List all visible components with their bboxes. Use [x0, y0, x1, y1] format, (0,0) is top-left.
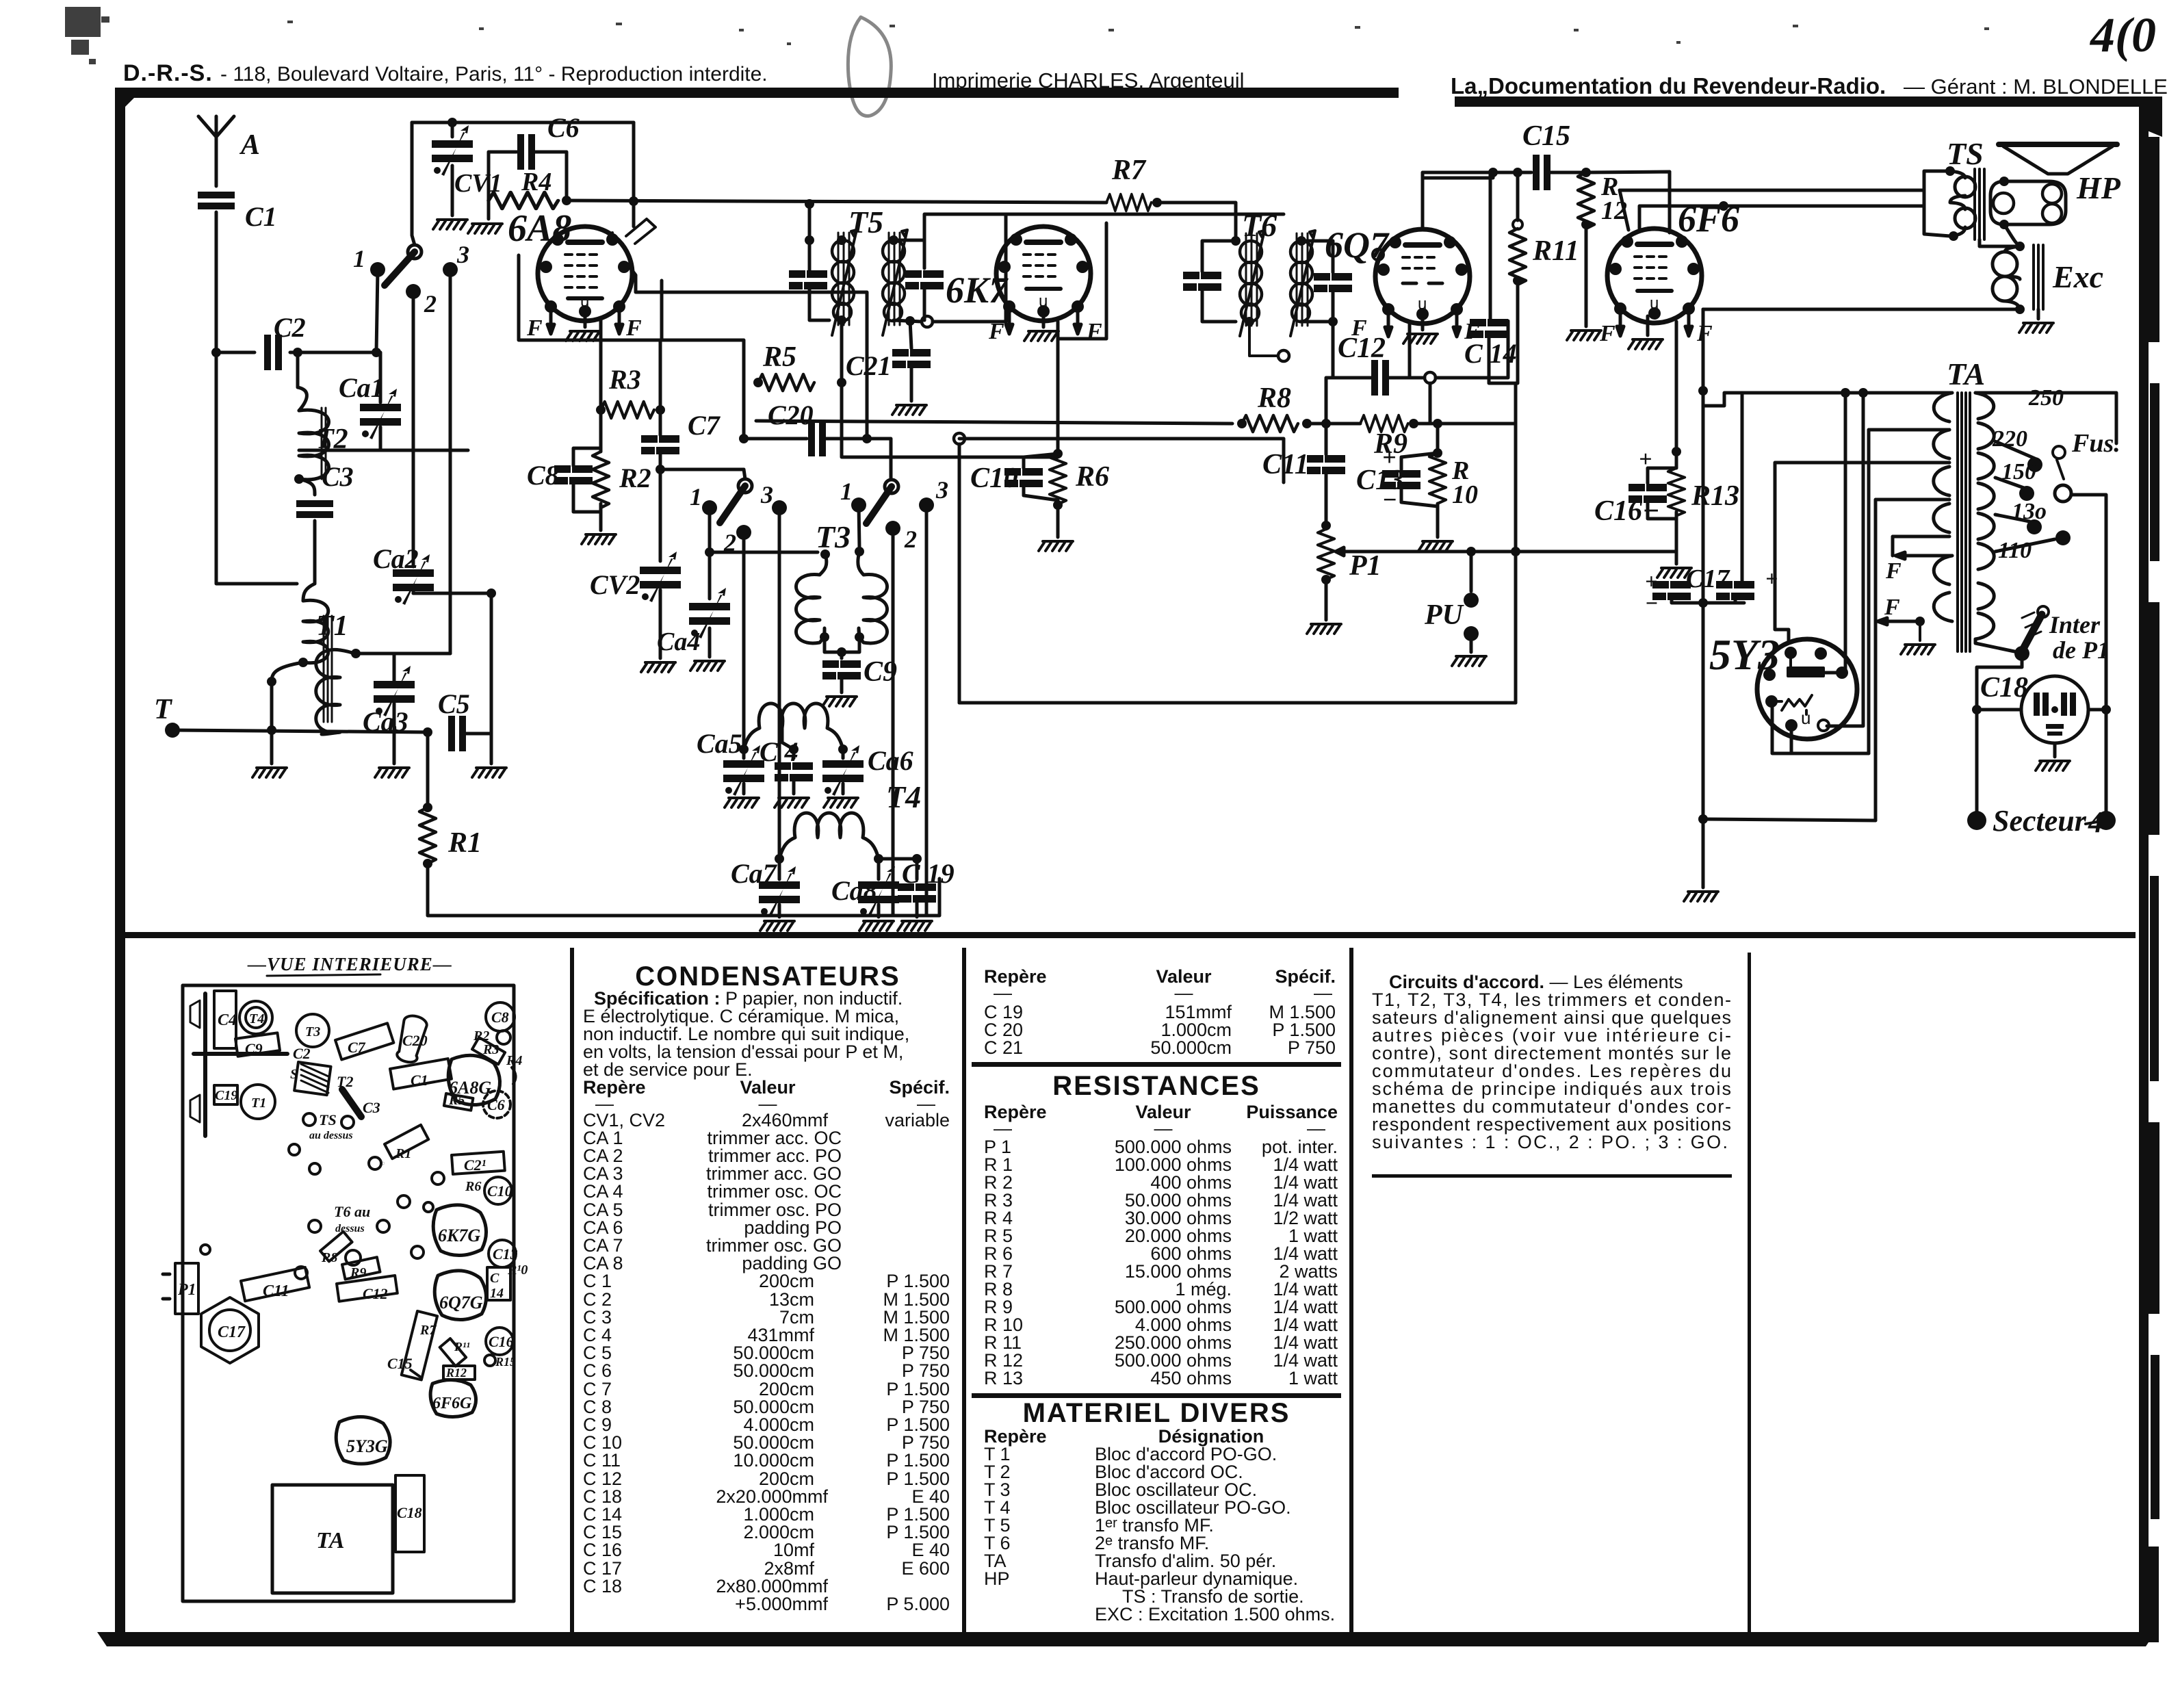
wire 6A8 pin drops — [601, 318, 660, 410]
part T2 hatch — [301, 1064, 328, 1093]
svg-text:1: 1 — [353, 245, 365, 272]
switch S1 lever — [385, 252, 415, 285]
part C17 — [201, 1297, 259, 1363]
ground under C9 — [822, 697, 857, 706]
svg-text:R4: R4 — [506, 1053, 522, 1068]
6A8 cathode ground — [584, 316, 587, 327]
wire left drop to pivot — [412, 122, 415, 245]
trimmer Ca2 — [393, 554, 434, 605]
svg-text:150: 150 — [2001, 459, 2036, 484]
svg-text:- 118, Boulevard Voltaire, Par: - 118, Boulevard Voltaire, Paris, 11° - … — [220, 63, 768, 86]
svg-text:C6: C6 — [547, 112, 580, 143]
node R8 right — [1302, 419, 1312, 428]
svg-text:50.000cm: 50.000cm — [1150, 1037, 1232, 1058]
capacitor C21 — [892, 349, 931, 368]
wire C7 node to pivot2 — [660, 468, 744, 471]
node bus x1402 — [954, 433, 965, 444]
svg-text:C10: C10 — [970, 463, 1018, 494]
wire C14 down — [1489, 337, 1516, 383]
node C7 bottom — [656, 465, 665, 474]
wire y807 to T3 — [710, 551, 818, 554]
svg-text:−: − — [1382, 486, 1397, 513]
wire C9 ground — [840, 679, 844, 693]
svg-text:C2: C2 — [293, 1045, 311, 1062]
wire T6 sec to 6Q7 grid — [1332, 322, 1335, 378]
resistor R5 — [758, 374, 814, 391]
wire 5Y3 bottom box — [1772, 701, 1869, 753]
node T5 sec top — [889, 235, 898, 245]
wire C20 right to S3 — [826, 439, 891, 479]
wire bus B+ y295 — [567, 200, 1106, 203]
node R10 top — [1433, 419, 1442, 428]
trimmer CV2 — [640, 552, 681, 602]
wire C8 R2 bracket — [573, 448, 601, 530]
TS secondary HP coil box — [1990, 181, 2066, 224]
coil T1 — [303, 600, 328, 663]
6F6 filament right — [1685, 313, 1692, 336]
wire T5 sec top right — [894, 240, 924, 268]
node T3 left top — [820, 549, 830, 559]
TA primary winding — [1934, 393, 1952, 621]
svg-text:13o: 13o — [2012, 499, 2047, 524]
tube 6K7 innards — [1000, 235, 1087, 316]
capacitor C12 — [1371, 360, 1389, 396]
wire T5 sec cap bottom — [923, 288, 926, 320]
wire 5Y3 plate feed 1 — [1825, 393, 1845, 673]
svg-text:PU: PU — [1424, 599, 1465, 631]
tube C18 condenser — [2021, 676, 2088, 743]
wire T5 cap branch — [809, 240, 829, 320]
svg-text:u: u — [580, 292, 589, 311]
svg-text:R6: R6 — [465, 1179, 481, 1194]
ground under R2 — [582, 534, 616, 544]
wire PU drop — [1470, 552, 1473, 591]
bottom border bar — [97, 1632, 2155, 1646]
svg-text:C16−: C16− — [1594, 495, 1659, 527]
svg-text:C18: C18 — [397, 1504, 422, 1521]
node sw1 wire — [372, 348, 381, 357]
wire C6 R4 frame — [489, 152, 567, 219]
mini table rows — [984, 1002, 1336, 1058]
top right corner diagonal — [2139, 107, 2162, 137]
svg-text:C7: C7 — [688, 410, 721, 441]
part T6 marker — [309, 1220, 321, 1232]
svg-text:50.000cm: 50.000cm — [733, 1360, 814, 1381]
svg-text:C 6: C 6 — [583, 1360, 612, 1381]
svg-text:T3: T3 — [816, 519, 851, 554]
coil T6 secondary — [1290, 231, 1315, 336]
wire T2 to C3 — [299, 479, 315, 495]
svg-text:P 5.000: P 5.000 — [886, 1594, 950, 1614]
tube 6Q7 — [1375, 229, 1470, 324]
P1 wiper arrow — [1336, 547, 1345, 556]
node TS sec bottom — [1999, 220, 2009, 229]
part C10 — [484, 1177, 512, 1204]
node C18 right — [2101, 705, 2111, 714]
svg-text:R7: R7 — [419, 1323, 437, 1338]
node 110 — [2055, 530, 2071, 545]
capacitor C6 — [517, 134, 535, 170]
capacitor C20 — [808, 421, 826, 456]
wire T1 bottom to T bus — [272, 662, 303, 730]
wire contact1 down — [376, 270, 380, 402]
wire C15 bus y252 — [1493, 172, 1670, 233]
svg-text:R12: R12 — [445, 1366, 467, 1380]
wire R12 ground — [1585, 224, 1588, 326]
tap 220 — [1995, 441, 2035, 458]
wire C5 right — [466, 732, 491, 736]
wire TS sec to Exc — [1980, 224, 2020, 246]
svg-text:2: 2 — [424, 290, 437, 318]
wire 6K7 box — [1006, 214, 1106, 454]
part T1 — [241, 1085, 275, 1119]
node C2 junction — [211, 348, 221, 357]
node Exc bottom — [2015, 305, 2025, 314]
wire y515 — [216, 351, 376, 354]
part R8 — [320, 1232, 352, 1262]
part C18 — [395, 1475, 424, 1552]
circuits d'accord paragraph — [1372, 972, 1731, 1152]
coil T3 right — [858, 552, 887, 643]
6K7 filament right — [1074, 311, 1081, 334]
capacitor C9 — [822, 660, 861, 680]
part 6K7G — [433, 1205, 486, 1256]
top border bar left — [115, 88, 1399, 107]
trimmer Ca1 — [360, 389, 401, 439]
wire R3 left down — [599, 410, 603, 448]
5Y3 innards — [1765, 648, 1847, 731]
resistor R7 — [1106, 194, 1152, 211]
node Ca5 top — [739, 745, 749, 754]
ground under C19 — [916, 902, 919, 917]
node y955 — [351, 649, 361, 658]
wire C13 R10 bracket — [1401, 424, 1438, 537]
svg-text:C3: C3 — [363, 1099, 380, 1116]
wire C18 right — [2088, 708, 2106, 712]
wire wiper bus y806 — [1345, 550, 1676, 554]
svg-text:C12: C12 — [363, 1285, 388, 1302]
part C7 — [335, 1023, 393, 1059]
terminal PU 2 — [1464, 626, 1479, 641]
resistor R4 — [489, 192, 558, 209]
scan noise top edge — [65, 7, 1989, 64]
svg-text:+: + — [1645, 569, 1657, 593]
svg-text:au dessus: au dessus — [309, 1130, 353, 1141]
svg-text:Fus.: Fus. — [2071, 429, 2120, 458]
svg-text:—VUE INTERIEURE—: —VUE INTERIEURE— — [247, 954, 452, 974]
switch S2 contact 2 — [736, 525, 751, 540]
wire Ca2 bottom — [412, 591, 415, 593]
wire R7 to T6 — [1157, 203, 1236, 241]
node R8 left — [1237, 419, 1247, 428]
speaker rail — [194, 994, 287, 1136]
wire x1402 down — [958, 444, 961, 703]
capacitor T5 primary — [789, 270, 827, 289]
coil T5 secondary — [883, 230, 907, 335]
part C8 — [486, 1002, 515, 1031]
svg-text:dessus: dessus — [335, 1223, 365, 1234]
wire C1 to node — [216, 212, 297, 584]
svg-text:+: + — [1639, 447, 1652, 472]
svg-text:—: — — [1154, 1118, 1173, 1139]
svg-text:250: 250 — [2028, 385, 2064, 411]
tube 5Y3 — [1757, 639, 1857, 739]
trimmer Ca4 — [689, 588, 730, 638]
resistor R2 — [593, 452, 609, 508]
svg-text:C10: C10 — [487, 1182, 512, 1200]
ground under R12 — [1567, 331, 1601, 340]
node C15 left — [1488, 168, 1498, 177]
resistor R12 — [1581, 168, 1591, 177]
node Ca6 top — [838, 745, 848, 754]
svg-text:—: — — [1307, 1118, 1325, 1139]
svg-text:+: + — [1382, 443, 1397, 471]
wire CV2 ground — [659, 590, 662, 658]
svg-text:CV2: CV2 — [590, 569, 640, 600]
part C9 — [235, 1033, 280, 1056]
wire R8 to R9 — [1305, 422, 1360, 426]
svg-text:5Y3G: 5Y3G — [346, 1436, 388, 1456]
ground under C4 — [792, 781, 796, 794]
capacitor T5 secondary — [905, 270, 944, 289]
svg-text:C17: C17 — [1686, 565, 1730, 593]
node R3 left — [596, 405, 606, 415]
svg-text:C3: C3 — [322, 461, 354, 492]
svg-text:10.000cm: 10.000cm — [733, 1450, 814, 1471]
part C1 — [390, 1059, 452, 1089]
wire y867 — [413, 592, 491, 595]
node C19 top — [912, 854, 922, 864]
wire C16 R13 bracket — [1648, 452, 1676, 564]
TA primary tap top — [1703, 393, 1952, 406]
ground under CV1 — [433, 220, 467, 229]
part C4 — [214, 991, 236, 1048]
wire C18 ground — [2053, 743, 2057, 757]
part C14 — [487, 1267, 510, 1300]
svg-text:trimmer osc. OC: trimmer osc. OC — [707, 1181, 842, 1202]
node T6 primary bottom — [1245, 317, 1254, 326]
svg-text:C 18: C 18 — [583, 1576, 622, 1596]
rule under circuits — [1372, 1174, 1732, 1178]
trimmer Ca3 — [374, 666, 415, 716]
wire T6 sec bottom — [1300, 292, 1333, 322]
terminal T — [165, 723, 180, 738]
wire to T2 — [298, 352, 307, 411]
6Q7 cathode ground — [1421, 319, 1425, 330]
wire C20 left — [744, 437, 807, 441]
node R7 right — [1152, 198, 1162, 207]
wire C11 chain — [1325, 424, 1328, 526]
svg-text:+5.000mmf: +5.000mmf — [735, 1594, 828, 1614]
part C13 — [489, 1240, 516, 1267]
switch S3 contact 2 — [885, 521, 900, 536]
switch S3 contact 1 — [851, 497, 866, 513]
part C3 — [342, 1089, 361, 1117]
ground HT left — [1684, 892, 1718, 901]
capacitor C3 — [296, 500, 333, 518]
ground under T bus — [252, 768, 287, 777]
svg-text:R8: R8 — [1257, 383, 1291, 414]
svg-text:—: — — [994, 983, 1012, 1003]
tube 6F6 innards — [1611, 237, 1698, 318]
node R11 top — [1513, 168, 1522, 177]
capacitor C19 — [898, 883, 936, 903]
node T2 bottom — [294, 474, 304, 484]
svg-text:Secteur: Secteur — [1993, 804, 2087, 838]
divider resistances/circuits — [1349, 948, 1353, 1632]
svg-text:T3: T3 — [305, 1024, 320, 1039]
wire T bus y1067 — [172, 730, 428, 732]
svg-text:Repère: Repère — [583, 1077, 646, 1098]
svg-text:6K7: 6K7 — [946, 270, 1009, 311]
node HT C17 — [1698, 386, 1708, 396]
schematic/table separator rule — [125, 932, 2136, 938]
svg-text:C12: C12 — [1338, 333, 1386, 364]
ground under PU — [1452, 656, 1486, 666]
ground under Ca5 — [742, 784, 746, 794]
coil T2 core — [322, 408, 326, 479]
node plate bus — [862, 434, 872, 443]
wire cathode bias drop — [1675, 322, 1678, 452]
svg-text:F: F — [1599, 321, 1615, 346]
svg-text:RESISTANCES: RESISTANCES — [1052, 1071, 1260, 1101]
switch S3 lever — [866, 487, 892, 523]
svg-text:6F6G: 6F6G — [432, 1395, 472, 1412]
node C21 top — [905, 316, 915, 326]
svg-text:1: 1 — [690, 483, 702, 510]
6A8 filament F left — [547, 311, 554, 334]
ground under R6 — [1039, 541, 1073, 551]
svg-text:6A8G: 6A8G — [449, 1078, 491, 1098]
svg-text:E 40: E 40 — [911, 1540, 950, 1560]
wire S3 contact2 down — [892, 528, 895, 916]
trimmer CV1 — [432, 125, 473, 176]
svg-text:T4: T4 — [249, 1011, 264, 1026]
ground under Ca7 — [778, 905, 781, 917]
wire C17 ties — [1672, 393, 1744, 603]
capacitor C4 — [775, 762, 813, 781]
capacitor T6 secondary — [1314, 273, 1352, 292]
node 130 — [2027, 519, 2042, 534]
svg-text:F: F — [1885, 558, 1902, 584]
node x718 top — [486, 588, 496, 598]
wire HT bottom rail — [1703, 819, 1876, 820]
svg-text:C1: C1 — [411, 1072, 428, 1089]
tube 6A8 — [538, 227, 632, 321]
wire C12 right — [1389, 321, 1508, 378]
wire T5 top to 6K7 plate — [924, 214, 1284, 240]
svg-text:C 19: C 19 — [902, 858, 955, 889]
part 5Y3G — [336, 1416, 390, 1464]
svg-text:Exc: Exc — [2052, 259, 2103, 294]
part 6Q7G — [434, 1271, 486, 1320]
svg-text:R1: R1 — [447, 827, 482, 859]
part C19 — [214, 1085, 237, 1104]
condensateurs table — [583, 1110, 950, 1614]
tap 130 — [1995, 515, 2029, 521]
svg-text:C11: C11 — [263, 1282, 289, 1300]
TA tap 5V a — [1869, 430, 1949, 753]
right border band — [2139, 116, 2149, 1642]
wire C14 feed — [1489, 172, 1492, 319]
TA sec top tap 250 — [1975, 393, 2116, 443]
svg-text:E 600: E 600 — [901, 1558, 950, 1579]
svg-text:TA: TA — [1947, 357, 1985, 391]
svg-text:—: — — [1175, 983, 1193, 1003]
capacitor C15 — [1533, 155, 1550, 190]
node R1 top — [423, 803, 432, 812]
svg-text:C7: C7 — [348, 1039, 366, 1056]
6K7 filament left — [1006, 311, 1013, 334]
wire contact2 down — [412, 292, 415, 567]
part 6A8G — [448, 1055, 499, 1104]
6A8 filament F right — [616, 311, 623, 334]
switch S1 contact 2 — [406, 284, 421, 299]
coil T4 osc GO — [779, 813, 879, 859]
svg-text:C17: C17 — [218, 1323, 246, 1341]
node bias top — [1672, 447, 1681, 456]
resistor R9 — [1360, 415, 1408, 432]
svg-text:F: F — [988, 319, 1004, 344]
svg-text:R3: R3 — [482, 1042, 499, 1057]
node T5 primary bottom — [837, 315, 846, 325]
terminal Secteur right — [2097, 811, 2116, 830]
svg-text:Ca1: Ca1 — [339, 372, 385, 403]
wire y955 — [356, 652, 450, 656]
svg-text:R4: R4 — [521, 168, 552, 196]
wire contact1 chain Ca4 — [708, 508, 712, 657]
svg-text:220: 220 — [1992, 426, 2027, 452]
wire top bus y179 — [412, 121, 634, 125]
resistances table — [984, 1137, 1338, 1388]
svg-text:P1: P1 — [1349, 550, 1381, 582]
part R11 — [440, 1338, 466, 1366]
TS core — [1975, 169, 1984, 240]
coil T1 core — [324, 616, 332, 722]
node CV1 top — [447, 118, 457, 127]
node HT bottom — [1698, 814, 1708, 824]
part P1 — [175, 1263, 198, 1314]
6K7 cathode ground — [1042, 316, 1046, 327]
wire selector out — [2071, 495, 2106, 811]
coil T2 — [299, 410, 329, 480]
wire HT down left side — [1702, 309, 1705, 888]
svg-text:R9: R9 — [350, 1265, 366, 1280]
wire C10 bracket — [1024, 454, 1058, 500]
trimmer Ca6 — [822, 745, 864, 796]
svg-text:14: 14 — [490, 1286, 504, 1301]
node R10 join — [1433, 448, 1442, 458]
switch Inter de P1 — [2023, 614, 2042, 649]
wire T5 top feed — [808, 204, 812, 240]
tube 6Q7 innards — [1373, 237, 1466, 319]
node T5 sec bottom — [922, 316, 933, 327]
wire contact3 down — [449, 270, 452, 654]
svg-text:C8: C8 — [491, 1009, 509, 1026]
svg-text:La„Documentation du Revendeur-: La„Documentation du Revendeur-Radio. — [1451, 73, 1886, 99]
svg-text:u: u — [1801, 708, 1811, 728]
node T2 top — [293, 348, 302, 357]
node C4 top — [789, 745, 799, 754]
svg-text:A: A — [239, 129, 260, 161]
divider condensateurs/resistances — [962, 948, 966, 1632]
wire R9 right — [1414, 422, 1516, 426]
wire T ground stub — [270, 730, 274, 764]
wire grid cap x926 — [632, 122, 636, 227]
rule above resistances — [972, 1062, 1341, 1067]
svg-text:T1: T1 — [251, 1096, 266, 1111]
wire S2 pivot up — [744, 469, 745, 479]
